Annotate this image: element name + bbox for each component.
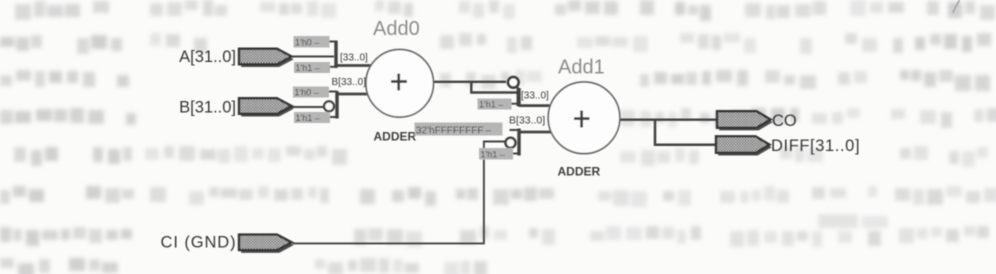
svg-text:1'h1 –: 1'h1 –: [479, 99, 503, 109]
svg-text:32'hFFFFFFFF –: 32'hFFFFFFFF –: [416, 125, 491, 136]
svg-text:B[33..0]: B[33..0]: [332, 77, 367, 88]
svg-text:1'h0 –: 1'h0 –: [295, 37, 319, 47]
svg-text:Add0: Add0: [373, 18, 420, 40]
svg-text:DIFF[31..0]: DIFF[31..0]: [771, 137, 860, 155]
svg-text:1'h1 –: 1'h1 –: [481, 149, 505, 159]
svg-text:ADDER: ADDER: [558, 165, 601, 179]
svg-text:Add1: Add1: [558, 57, 605, 79]
svg-text:1'h0 –: 1'h0 –: [295, 87, 319, 97]
svg-text:CI (GND): CI (GND): [161, 234, 237, 252]
svg-text:ADDER: ADDER: [374, 130, 417, 144]
svg-text:[33..0]: [33..0]: [521, 90, 549, 101]
svg-text:A[31..0]: A[31..0]: [179, 48, 236, 66]
svg-text:1'h1 –: 1'h1 –: [296, 113, 320, 123]
svg-text:[33..0]: [33..0]: [340, 53, 368, 64]
svg-text:B[31..0]: B[31..0]: [179, 99, 236, 117]
svg-text:CO: CO: [772, 112, 797, 130]
svg-text:B[33..0]: B[33..0]: [509, 115, 545, 127]
svg-text:1'h1 –: 1'h1 –: [296, 63, 320, 73]
